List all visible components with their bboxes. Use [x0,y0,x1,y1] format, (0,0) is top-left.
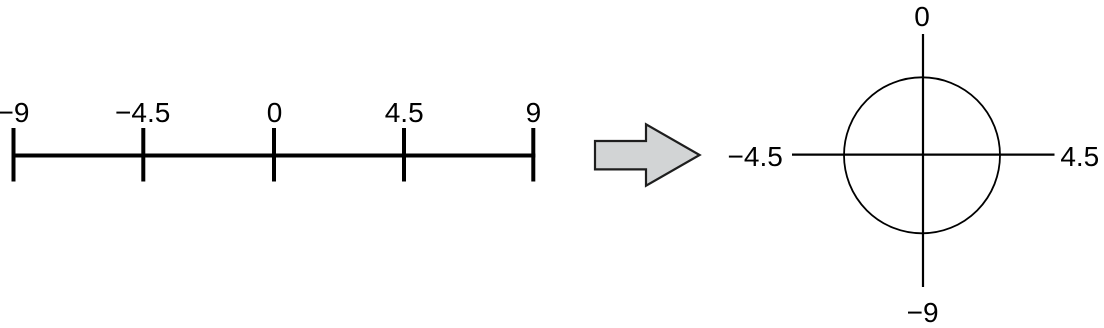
tick -4.5 [141,128,145,182]
svg-text:−4.5: −4.5 [115,97,170,128]
tick 9 [531,128,535,182]
svg-text:−4.5: −4.5 [728,141,783,172]
tick 4.5 [402,128,406,182]
tick -9 [12,128,16,182]
vertical axis [922,34,924,287]
svg-text:−9: −9 [0,97,29,128]
svg-text:−9: −9 [907,297,939,328]
tick 0 [272,128,276,182]
horizontal axis [792,154,1055,156]
svg-text:0: 0 [914,1,930,32]
svg-text:4.5: 4.5 [1060,141,1099,172]
number line axis [12,154,536,158]
svg-text:0: 0 [267,97,283,128]
svg-text:9: 9 [526,97,542,128]
circle [844,77,1000,233]
svg-text:4.5: 4.5 [385,97,424,128]
block arrow [595,124,700,185]
